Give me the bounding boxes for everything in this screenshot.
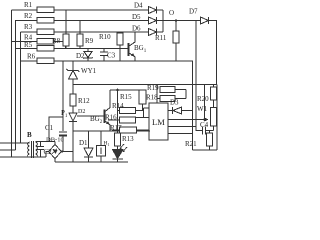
wire relay J column xyxy=(100,131,102,146)
wire phase line bottom y157 xyxy=(0,156,46,158)
svg-text:R15: R15 xyxy=(120,93,132,101)
svg-text:R12: R12 xyxy=(78,97,90,105)
wire secondary bottom xyxy=(36,156,47,158)
wire D5 cathode to D7 xyxy=(157,20,201,22)
arrow wiper head xyxy=(205,118,209,122)
svg-text:WY1: WY1 xyxy=(81,67,97,75)
svg-text:R19: R19 xyxy=(147,84,159,92)
box LM xyxy=(149,103,168,140)
diode D6 xyxy=(149,29,157,36)
wire R2 to D5 xyxy=(54,20,148,22)
wire R10 drop from R3 row xyxy=(119,32,121,33)
svg-text:C3: C3 xyxy=(107,52,116,60)
wire secondary top xyxy=(36,141,56,143)
transistor BG2 collector xyxy=(105,90,111,112)
wire right bus lower xyxy=(216,85,218,151)
svg-text:R9: R9 xyxy=(85,37,94,45)
svg-text:LM: LM xyxy=(152,117,165,127)
wire R4 to R8 junction xyxy=(54,42,66,49)
svg-text:D6: D6 xyxy=(132,25,141,33)
resistor R15 xyxy=(139,90,146,104)
resistor R5 xyxy=(37,46,54,52)
svg-text:R8: R8 xyxy=(52,37,61,45)
capacitor C2 xyxy=(40,142,42,147)
resistor R16 xyxy=(120,117,136,123)
resistor R8 xyxy=(63,34,69,46)
svg-text:R13: R13 xyxy=(122,135,134,143)
wire x186 vertical xyxy=(185,90,187,99)
wire R4 row xyxy=(12,41,38,43)
wire2 rail y61 to right edge corner xyxy=(54,61,193,150)
svg-text:R2: R2 xyxy=(24,12,33,20)
wire column down to bottom xyxy=(72,122,74,163)
transformer B primary coil xyxy=(28,142,30,157)
wire R8 bottom xyxy=(65,46,67,49)
wire bridge right vertex to column xyxy=(62,151,74,153)
wire R3 row xyxy=(21,31,38,33)
diode D1 xyxy=(84,148,93,157)
wire R8 drop from R1 row xyxy=(65,10,67,34)
svg-text:R1: R1 xyxy=(24,1,33,9)
zener WY1 xyxy=(72,61,74,71)
wire diode join vertical xyxy=(162,10,164,32)
resistor R17 box xyxy=(120,127,137,133)
wire phase bus A vertical xyxy=(11,10,13,157)
wire D1 column xyxy=(88,131,90,148)
resistor R14 xyxy=(120,108,136,114)
bridge inner diode xyxy=(53,149,58,154)
svg-text:O: O xyxy=(169,9,174,17)
resistor R6 xyxy=(37,58,54,64)
transformer B core xyxy=(31,141,33,158)
wire bridge bottom vertex xyxy=(54,159,56,163)
svg-text:C1: C1 xyxy=(45,124,54,132)
wire phase bus C vertical xyxy=(20,32,22,143)
diode D7 xyxy=(201,17,209,24)
svg-text:R14: R14 xyxy=(112,102,124,110)
svg-text:R10: R10 xyxy=(99,33,111,41)
svg-text:D4: D4 xyxy=(134,2,143,10)
svg-text:C2: C2 xyxy=(44,148,53,156)
svg-text:R17: R17 xyxy=(110,124,122,132)
resistor R21 xyxy=(209,131,211,134)
resistor R11 xyxy=(173,31,179,43)
svg-text:R20: R20 xyxy=(197,95,209,103)
wire R6 row xyxy=(21,60,38,62)
svg-text:D2: D2 xyxy=(76,52,85,60)
wire R1 to D4 xyxy=(54,9,148,11)
node O dot xyxy=(175,19,177,21)
resistor R9 xyxy=(77,34,83,46)
wire R11 bottom to wire2 xyxy=(175,43,177,61)
wire phase bus B vertical xyxy=(15,20,17,150)
svg-text:BG1: BG1 xyxy=(134,44,147,54)
diode D2 zener xyxy=(87,49,89,52)
node dot bridge right vertex xyxy=(61,150,63,152)
potentiometer W1 xyxy=(211,108,217,127)
wire to bridge left vertex xyxy=(46,152,48,158)
node P1 column xyxy=(62,61,64,131)
svg-text:D7: D7 xyxy=(189,8,198,16)
resistor R12 xyxy=(70,94,76,106)
wire phase line mid y150 xyxy=(0,149,16,151)
wire D4 cathode xyxy=(157,9,164,11)
svg-text:H1: H1 xyxy=(104,141,110,148)
svg-text:C4: C4 xyxy=(200,121,209,129)
resistor R1 xyxy=(37,7,54,13)
wire3 rail y85 xyxy=(73,84,217,86)
wire phase line top y143 xyxy=(0,142,28,144)
resistor R18 xyxy=(160,96,175,102)
svg-text:R3: R3 xyxy=(24,23,33,31)
resistor R10 xyxy=(117,33,123,45)
wire primary top connect xyxy=(28,142,30,144)
wire bottom rail y131 xyxy=(73,130,150,132)
wire R20 to W1 xyxy=(213,100,215,108)
svg-text:R6: R6 xyxy=(27,53,36,61)
transistor BG1 emitter with arrow xyxy=(129,53,136,62)
diode D5 xyxy=(149,17,157,24)
transistor BG1 collector xyxy=(129,32,136,47)
wire R13 column from wire3 xyxy=(117,90,119,133)
transistor BG1 base bar xyxy=(128,43,130,56)
svg-text:R5: R5 xyxy=(24,41,33,49)
transistor BG2 emitter with arrow xyxy=(105,121,111,132)
wire D7 cathode corner down right bus xyxy=(209,21,217,85)
bridge rectifier DB-10 diamond xyxy=(49,145,62,159)
node dot wiper xyxy=(203,118,206,121)
wire R1 row xyxy=(12,9,38,11)
resistor R13 xyxy=(115,133,121,146)
wire LM wiper line to W1 xyxy=(168,119,207,121)
capacitor C3 plates xyxy=(103,49,105,53)
wire bridge top vertex xyxy=(54,142,56,145)
svg-text:R16: R16 xyxy=(105,114,117,122)
photodiode arrows xyxy=(120,144,124,149)
wire LM lower right output xyxy=(168,133,193,135)
wire LM to C4 xyxy=(168,126,196,128)
wire R5 row xyxy=(16,48,38,50)
resistor R4 xyxy=(37,39,54,45)
capacitor C1 xyxy=(59,131,67,133)
diode D8 (on R12 column) xyxy=(69,113,77,121)
svg-text:R11: R11 xyxy=(155,34,167,42)
wire x205 from wire3 xyxy=(204,85,206,120)
diode D3 pointing left xyxy=(168,110,173,112)
wire R12 bottom xyxy=(72,106,74,113)
resistor R2 xyxy=(37,18,54,24)
wire R11 drop xyxy=(175,21,177,32)
svg-text:D1: D1 xyxy=(79,139,88,147)
svg-text:D3: D3 xyxy=(170,99,179,107)
wire R10 bottom crossing to wire2 xyxy=(119,45,121,61)
resistor R17 xyxy=(112,129,120,131)
node dot x117 xyxy=(116,89,119,92)
wire LM feeds from wire3 xyxy=(156,85,158,104)
resistor R20 xyxy=(213,85,215,88)
wire drop x196 from row2 xyxy=(195,21,197,127)
transistor BG2 base bar xyxy=(104,110,106,124)
transformer B secondary coil xyxy=(36,142,38,157)
svg-text:R21: R21 xyxy=(185,140,197,148)
svg-text:D5: D5 xyxy=(132,13,141,21)
diode D4 xyxy=(149,7,157,14)
wire D6 cathode xyxy=(157,31,164,33)
capacitor C4 xyxy=(196,127,202,131)
wire R9 drop from R2 row xyxy=(79,21,81,35)
wire P1 branch left down xyxy=(49,117,63,141)
svg-text:R18: R18 xyxy=(146,94,158,102)
wire1 supply rail y48.5 xyxy=(54,48,128,50)
svg-text:B: B xyxy=(27,131,32,139)
wire bottom bus y162 xyxy=(55,161,128,163)
wire y90 sub-line xyxy=(110,89,139,91)
resistor R19 xyxy=(160,87,175,93)
wire R9 bottom xyxy=(79,46,81,49)
relay J box xyxy=(97,146,106,157)
svg-text:DB-10: DB-10 xyxy=(46,137,64,144)
photodiode 3T xyxy=(113,150,124,159)
svg-text:D2: D2 xyxy=(78,109,85,115)
wire R3 to D6 xyxy=(54,31,148,33)
transistor BG2 base line xyxy=(77,115,105,117)
svg-text:W1: W1 xyxy=(197,105,208,113)
resistor R3 xyxy=(37,29,54,35)
wire R2 row xyxy=(16,20,38,22)
